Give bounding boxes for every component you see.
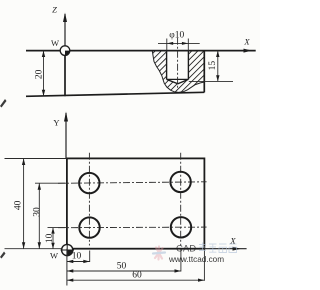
dimension 30 text bbox=[32, 207, 42, 217]
svg-text:W: W bbox=[50, 251, 58, 261]
drill point V bbox=[167, 79, 189, 83]
watermark row 1 CJK glyph marks bbox=[199, 243, 237, 253]
watermark logo bbox=[153, 247, 165, 260]
extension line lower row (10) bbox=[48, 227, 67, 229]
part right edge (front view) bbox=[203, 51, 205, 93]
svg-text:10: 10 bbox=[45, 233, 55, 243]
dimension 40 arrows bbox=[22, 159, 25, 166]
hole bottom shoulder bbox=[167, 78, 189, 80]
svg-text:50: 50 bbox=[117, 261, 127, 271]
blind hole right wall bbox=[187, 51, 189, 80]
extension line top edge (40) bbox=[5, 158, 67, 160]
dimension 10 (bottom) line bbox=[67, 261, 90, 263]
part left edge (front view) bbox=[64, 51, 66, 97]
svg-text:Z: Z bbox=[52, 5, 57, 15]
svg-text:20: 20 bbox=[35, 69, 45, 79]
origin W symbol (front view) bbox=[60, 46, 70, 56]
extension line bottom edge (40/30/10) bbox=[5, 248, 67, 250]
extension line right edge (60) bbox=[203, 249, 205, 281]
dimension 20 arrows bbox=[42, 51, 45, 57]
scan speck left margin upper bbox=[0, 99, 7, 108]
dimension 40 text bbox=[13, 200, 23, 210]
dimension 60 line bbox=[67, 279, 205, 281]
hole bottom-left bbox=[79, 217, 99, 237]
dimension 50 arrows bbox=[67, 269, 73, 272]
hole column centre line left bbox=[88, 153, 90, 246]
dimension 60 arrows bbox=[67, 279, 73, 282]
crosshair through origin (top view) bbox=[61, 249, 75, 251]
extension line upper row (30) bbox=[35, 182, 67, 184]
Y axis arrow bbox=[64, 112, 68, 122]
left vertical extension below W bbox=[66, 249, 68, 286]
dimension 20 line bbox=[43, 51, 45, 97]
dimension 10 (bottom) arrows bbox=[67, 260, 73, 263]
dimension phi10 extension lines bbox=[166, 39, 168, 51]
part bottom edge (front view) bbox=[26, 92, 204, 96]
plate outline rectangle bbox=[67, 158, 205, 248]
dimension 30 line bbox=[38, 183, 40, 249]
dimension phi10 line bbox=[158, 42, 200, 44]
svg-text:www.ttcad.com: www.ttcad.com bbox=[168, 255, 224, 264]
dimension 10 (vertical) line bbox=[52, 228, 54, 249]
dimension 15 line bbox=[217, 51, 219, 82]
dimension 10 (vertical) arrows bbox=[51, 228, 54, 234]
svg-text:Y: Y bbox=[53, 117, 59, 127]
dimension 20 text bbox=[35, 69, 45, 79]
svg-text:CAD: CAD bbox=[176, 244, 196, 255]
Y axis bbox=[65, 113, 67, 158]
extension line first column (10) bbox=[89, 251, 91, 263]
X axis / top surface line (front view) bbox=[26, 50, 256, 52]
hole row centre line lower bbox=[58, 226, 207, 229]
X axis arrow (top view) bbox=[233, 247, 242, 251]
dimension 30 arrows bbox=[38, 183, 41, 190]
blind hole left wall bbox=[166, 51, 168, 80]
hole column centre line right bbox=[180, 153, 182, 246]
hole top-left bbox=[79, 173, 99, 193]
scan speck left margin lower bbox=[0, 252, 6, 259]
section hatch bbox=[103, 48, 250, 97]
Z axis bbox=[64, 14, 66, 51]
hole row centre line upper bbox=[58, 182, 207, 184]
X axis arrow (front) bbox=[244, 49, 253, 53]
dimension 15 text bbox=[208, 61, 218, 71]
svg-text:60: 60 bbox=[132, 270, 142, 280]
dimension 40 line bbox=[23, 159, 25, 249]
svg-text:φ10: φ10 bbox=[169, 31, 184, 41]
extension line second column (50) bbox=[180, 250, 182, 272]
svg-text:30: 30 bbox=[32, 207, 42, 217]
break (wavy) line of broken-out section bbox=[152, 51, 204, 93]
dimension 15 extension line bbox=[189, 80, 233, 82]
hole top-right bbox=[170, 172, 190, 192]
svg-text:40: 40 bbox=[13, 200, 23, 210]
svg-text:10: 10 bbox=[72, 252, 82, 262]
dimension 10 (vertical) text bbox=[45, 233, 55, 243]
hole centre line (front view) bbox=[177, 38, 179, 89]
origin W symbol (top view) bbox=[62, 244, 73, 255]
dimension 50 line bbox=[67, 270, 181, 272]
Z axis arrow bbox=[63, 13, 67, 23]
svg-text:15: 15 bbox=[208, 61, 218, 71]
dimension phi10 arrows bbox=[167, 42, 173, 45]
X axis (top view) bbox=[204, 248, 246, 250]
svg-text:X: X bbox=[243, 37, 250, 47]
hole bottom-right bbox=[171, 217, 191, 237]
svg-text:W: W bbox=[51, 38, 59, 48]
dimension 15 arrows bbox=[216, 51, 219, 57]
